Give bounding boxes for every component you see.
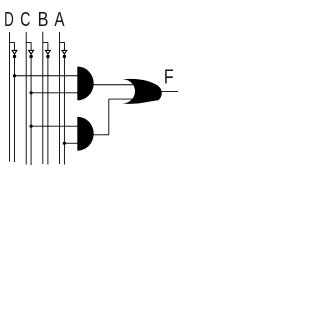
inverter triangle on B branch: [46, 50, 51, 54]
svg-text:A: A: [54, 8, 64, 31]
OR gate G3: [122, 79, 162, 104]
wire: branch stub from A to inverter: [59, 43, 64, 51]
junction dot on rail D' at G1 input: [13, 74, 16, 77]
rail C (input C vertical line): [25, 32, 27, 165]
inverter triangle on A branch: [62, 50, 67, 54]
wire: C' to AND gate G2 input 1: [31, 125, 77, 127]
wire: G2 output to riser: [93, 134, 109, 136]
wire: branch stub from D to inverter: [9, 43, 14, 51]
rail A' (inverted A vertical line): [63, 58, 65, 165]
wire: A' to AND gate G2 input 2: [64, 142, 77, 144]
inverter bubble on C branch: [29, 55, 32, 58]
rail B (input B vertical line): [42, 32, 44, 164]
junction dot on rail C' at G2 input: [30, 125, 33, 128]
AND gate G2: [77, 117, 93, 151]
inverter bubble on A branch: [63, 55, 66, 58]
wire: riser vertical segment: [108, 99, 110, 135]
rail D' (inverted D vertical line): [13, 58, 15, 163]
wire: C' to AND gate G1 input 2: [31, 92, 77, 94]
wire: D' to AND gate G1 input 1: [15, 75, 78, 77]
rail A (input A vertical line): [58, 32, 60, 164]
inverter bubble on B branch: [46, 55, 49, 58]
AND gate G1: [77, 67, 93, 101]
wire: OR gate G3 output to F: [159, 90, 178, 92]
rail C' (inverted C vertical line): [30, 58, 32, 166]
inverter triangle on D branch: [12, 50, 17, 54]
svg-text:F: F: [164, 64, 174, 87]
wire: branch stub from B to inverter: [43, 43, 48, 51]
svg-text:C: C: [20, 7, 30, 30]
inverter bubble on D branch: [13, 55, 16, 58]
rail B' (inverted B vertical line): [47, 58, 49, 165]
wire: G1 output to OR gate G3 input 1: [93, 84, 133, 86]
junction dot on rail C' at G1 input: [30, 91, 33, 94]
svg-text:B: B: [38, 7, 49, 30]
rail D (input D vertical line): [8, 32, 10, 162]
inverter triangle on C branch: [29, 50, 34, 54]
svg-text:D: D: [4, 7, 14, 31]
wire: branch stub from C to inverter: [26, 43, 31, 51]
wire: riser to OR gate G3 input 2: [109, 98, 133, 100]
junction dot on rail A' at G2 input: [63, 142, 66, 145]
